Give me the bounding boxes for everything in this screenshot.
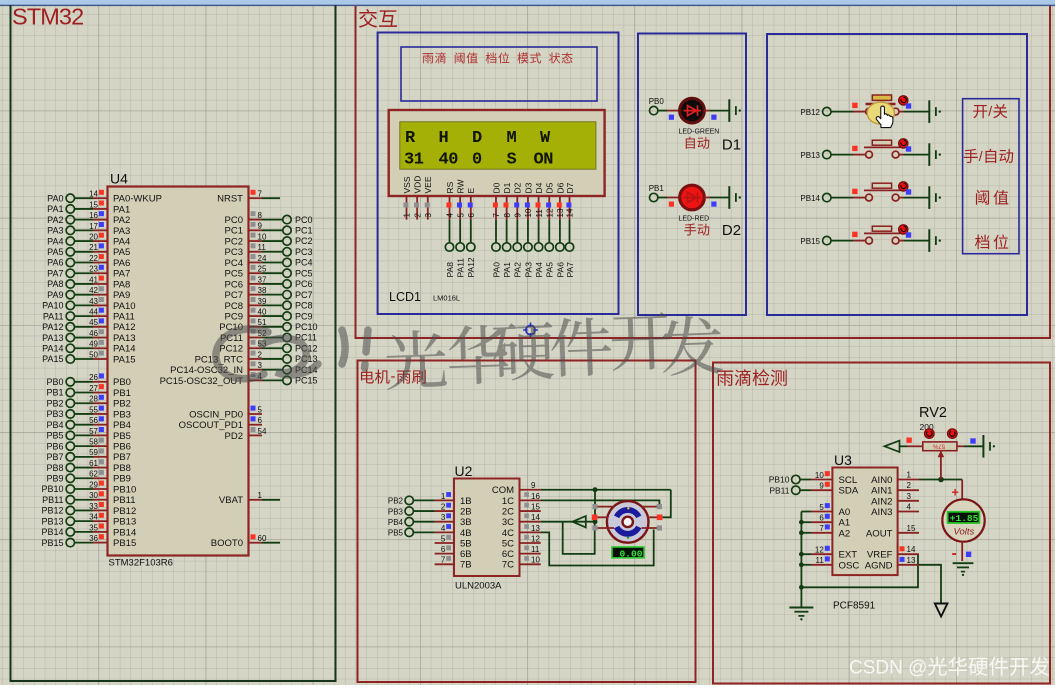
svg-text:1C: 1C: [502, 496, 514, 507]
push button PB12: [853, 95, 911, 124]
svg-text:PC5: PC5: [225, 269, 243, 280]
svg-text:14: 14: [531, 513, 540, 522]
wire junction down to node B: [594, 490, 596, 522]
svg-text:6B: 6B: [460, 549, 472, 560]
svg-text:5: 5: [258, 405, 263, 414]
U4 pin 36 PB15 terminal: [41, 534, 136, 549]
svg-text:37: 37: [258, 275, 267, 284]
svg-text:PB15: PB15: [41, 538, 63, 548]
svg-text:2B: 2B: [460, 506, 472, 517]
svg-text:14: 14: [907, 545, 916, 554]
U4 pin 34 PB13 terminal: [41, 513, 136, 528]
terminal PB3: [388, 507, 435, 516]
svg-text:PC9: PC9: [225, 311, 243, 322]
svg-text:45: 45: [89, 318, 98, 327]
svg-text:OSCIN_PD0: OSCIN_PD0: [189, 409, 243, 420]
U4 pin 24 PC4 terminal: [225, 254, 313, 269]
wire PB14 to button: [831, 197, 853, 199]
U4 pin 25 PC5 terminal: [225, 265, 313, 280]
svg-text:PC1: PC1: [225, 226, 243, 237]
svg-text:PA5: PA5: [545, 262, 555, 278]
svg-text:-: -: [952, 545, 957, 562]
wire PB12 to button: [831, 111, 853, 113]
label 手/自动: [964, 148, 1013, 164]
svg-text:PA0-WKUP: PA0-WKUP: [113, 194, 162, 205]
svg-text:PB8: PB8: [46, 463, 63, 473]
svg-text:PA11: PA11: [113, 312, 135, 323]
svg-text:PA9: PA9: [113, 290, 130, 301]
watermark CSDN bottom right: [849, 657, 1049, 679]
svg-text:5: 5: [819, 503, 824, 512]
LCD1 reference label: [389, 290, 460, 304]
svg-text:VREF: VREF: [867, 550, 893, 561]
U2 pin 15 2C: [502, 502, 541, 517]
wire LCD1 pin 11 to terminal PA4: [534, 220, 544, 278]
ground for voltmeter: [953, 563, 974, 576]
svg-text:A1: A1: [839, 518, 851, 529]
svg-text:PB11: PB11: [42, 495, 63, 505]
wire RV2 wiper to AIN0: [938, 450, 945, 479]
terminal PB15: [800, 236, 831, 245]
svg-text:6: 6: [819, 514, 824, 523]
terminal PB1: [649, 184, 665, 202]
svg-text:PC6: PC6: [225, 279, 243, 290]
U4 pin 52 PC11 terminal: [220, 329, 317, 344]
wire LCD1 pin 9 to terminal PA2: [513, 220, 523, 278]
svg-text:50: 50: [89, 350, 98, 359]
LED D2 LED-RED: [667, 185, 704, 210]
U4 pin 1 VBAT: [219, 491, 280, 506]
label 档位: [975, 234, 1008, 249]
svg-text:OSCOUT_PD1: OSCOUT_PD1: [179, 420, 243, 431]
svg-text:PA3: PA3: [523, 262, 533, 278]
svg-text:D6: D6: [555, 182, 565, 193]
svg-text:AIN0: AIN0: [871, 475, 892, 486]
svg-text:SDA: SDA: [839, 486, 859, 497]
LCD1 pin 14 D7: [565, 182, 575, 219]
svg-text:2C: 2C: [502, 506, 514, 517]
U3 pin 3 AIN2: [871, 492, 919, 508]
svg-text:8: 8: [258, 211, 263, 220]
region box 交互 (interaction): [356, 6, 1051, 338]
svg-text:PA10: PA10: [113, 301, 136, 312]
svg-text:PA8: PA8: [47, 279, 63, 289]
chip U3 PCF8591 body: [832, 452, 897, 612]
svg-text:PC9: PC9: [295, 311, 313, 321]
svg-text:3B: 3B: [460, 517, 472, 528]
U4 pin 58 PB6 terminal: [46, 438, 130, 453]
svg-text:7: 7: [819, 524, 824, 533]
U4 pin 20 PA4 terminal: [47, 232, 130, 247]
region box STM32: [11, 5, 336, 681]
svg-text:60: 60: [258, 534, 267, 543]
svg-text:PA4: PA4: [47, 236, 63, 246]
U2 pin 14 3C: [502, 513, 541, 528]
svg-text:9: 9: [258, 222, 263, 231]
U4 pin 45 PA12 terminal: [42, 318, 135, 333]
svg-text:PA11: PA11: [43, 311, 64, 321]
svg-text:40: 40: [258, 307, 267, 316]
svg-text:41: 41: [89, 275, 98, 284]
svg-text:24: 24: [258, 254, 267, 263]
svg-text:23: 23: [89, 265, 98, 274]
svg-text:PA7: PA7: [565, 262, 575, 278]
wire PB15 to button: [831, 240, 853, 242]
U4 pin 16 PA2 terminal: [47, 211, 130, 226]
svg-text:20: 20: [89, 232, 98, 241]
svg-text:PA0: PA0: [47, 193, 63, 203]
LCD1 pin 2 VDD: [413, 176, 423, 220]
svg-text:11: 11: [258, 243, 267, 252]
U2 pin 16 1C: [502, 492, 541, 507]
label 自动: [686, 137, 710, 149]
svg-text:PA2: PA2: [47, 215, 63, 225]
svg-text:PB13: PB13: [41, 516, 63, 526]
origin marker: [523, 323, 538, 338]
svg-text:RS: RS: [445, 181, 455, 193]
svg-text:VDD: VDD: [413, 176, 423, 194]
U4 pin 29 PB10 terminal: [41, 480, 136, 495]
svg-text:16: 16: [89, 211, 98, 220]
svg-text:PB13: PB13: [113, 517, 136, 528]
svg-text:3: 3: [258, 361, 263, 370]
terminal PB5: [388, 528, 435, 537]
svg-text:PB10: PB10: [769, 475, 790, 485]
U4 pin 50 PA15 terminal: [42, 350, 135, 365]
svg-text:46: 46: [89, 329, 98, 338]
wire LCD1 pin 5 to terminal PA11: [456, 220, 466, 278]
ground for button PB15: [929, 229, 941, 252]
U4 pin 15 PA1 terminal: [47, 200, 130, 215]
U4 pin 59 PB7 terminal: [46, 448, 130, 463]
wire U2 3C to motor left-middle pin: [541, 521, 595, 523]
label 手动: [684, 223, 709, 235]
svg-text:PB15: PB15: [800, 237, 820, 246]
svg-text:VBAT: VBAT: [219, 495, 243, 506]
U4 pin 46 PA13 terminal: [42, 329, 135, 344]
svg-text:15: 15: [89, 200, 98, 209]
U2 pin 11 6C: [502, 545, 541, 560]
title 电机-雨刷: [361, 368, 426, 385]
wire LCD1 pin 14 to terminal PA7: [565, 220, 575, 278]
svg-text:PA12: PA12: [113, 322, 136, 333]
svg-text:10: 10: [531, 556, 540, 565]
wire voltmeter minus to ground: [962, 542, 971, 561]
svg-text:D5: D5: [545, 182, 555, 193]
terminal PB0: [649, 97, 665, 115]
svg-text:PA7: PA7: [113, 269, 130, 280]
svg-text:PC6: PC6: [295, 279, 313, 289]
svg-text:PB1: PB1: [46, 388, 63, 398]
svg-text:58: 58: [89, 438, 98, 447]
U4 pin 54 PD2: [225, 427, 267, 442]
U4 pin 26 PB0 terminal: [46, 373, 130, 388]
LCD1 pin 11 D4: [534, 182, 544, 219]
svg-text:PB10: PB10: [41, 484, 63, 494]
LED D1 LED-GREEN: [667, 98, 704, 123]
svg-text:VEE: VEE: [423, 176, 433, 193]
svg-text:4: 4: [446, 213, 455, 218]
svg-text:D2: D2: [722, 222, 741, 239]
motor stepper: [607, 501, 649, 543]
chip U4 STM32F103R6 body: [108, 171, 249, 569]
svg-text:6: 6: [258, 416, 263, 425]
svg-text:PB5: PB5: [46, 431, 63, 441]
U4 pin 57 PB5 terminal: [46, 427, 130, 442]
region box 雨滴检测 (rain detection): [713, 363, 1050, 684]
svg-text:1: 1: [403, 213, 412, 218]
wire PB13 to button: [831, 154, 853, 156]
svg-text:PA0: PA0: [491, 262, 501, 278]
U2 pin 3 3B: [435, 513, 472, 528]
svg-text:57: 57: [89, 427, 98, 436]
svg-text:5C: 5C: [502, 538, 514, 549]
svg-text:PC4: PC4: [225, 258, 243, 269]
svg-text:STM32: STM32: [12, 4, 83, 30]
svg-text:RV2: RV2: [919, 405, 947, 421]
svg-text:PC2: PC2: [295, 236, 313, 246]
svg-text:PC12: PC12: [219, 344, 243, 355]
svg-text:PA13: PA13: [42, 333, 63, 343]
U3 pin 6 A1: [811, 514, 850, 529]
U4 pin 8 PC0 terminal: [225, 211, 313, 226]
svg-text:7: 7: [258, 190, 263, 199]
svg-text:PB14: PB14: [113, 527, 136, 538]
svg-text:2: 2: [413, 213, 422, 218]
arrow ground marker: [935, 604, 948, 617]
LCD LCD1 LM016L body: [389, 110, 605, 196]
watermark script center: [216, 312, 723, 390]
LCD1 pin 4 RS: [445, 181, 455, 219]
svg-text:PA8: PA8: [445, 262, 455, 278]
svg-text:PB5: PB5: [113, 431, 131, 442]
svg-text:BOOT0: BOOT0: [211, 538, 243, 549]
svg-text:PB4: PB4: [388, 518, 404, 527]
svg-text:43: 43: [89, 297, 98, 306]
svg-text:27: 27: [89, 384, 98, 393]
svg-text:3: 3: [424, 213, 433, 218]
title 交互: [359, 9, 397, 28]
U2 pin 1 1B: [435, 492, 472, 507]
svg-text:PA3: PA3: [113, 226, 130, 237]
svg-text:PB12: PB12: [113, 506, 136, 517]
label box button functions: [963, 99, 1019, 254]
wire RV2 right to ground: [957, 438, 983, 446]
svg-text:PA14: PA14: [42, 343, 63, 353]
U4 pin 43 PA10 terminal: [42, 297, 135, 312]
wire AIN0 to wiper node: [919, 479, 941, 481]
svg-text:11: 11: [531, 545, 540, 554]
svg-text:PA12: PA12: [466, 257, 476, 277]
svg-text:PC4: PC4: [295, 258, 313, 268]
U4 pin 61 PB8 terminal: [46, 459, 130, 474]
wire button PB15 to ground: [899, 240, 904, 242]
U3 pin 12 EXT: [811, 546, 857, 561]
svg-text:PB9: PB9: [113, 474, 131, 485]
voltmeter: [942, 486, 984, 563]
wire RV2 left to arrow terminal: [885, 438, 923, 453]
svg-text:54: 54: [258, 427, 267, 436]
push button PB13: [853, 139, 911, 158]
wire LCD1 pin 12 to terminal PA5: [545, 220, 555, 278]
svg-text:6: 6: [467, 213, 476, 218]
U2 pin 13 4C: [502, 524, 541, 539]
svg-text:A2: A2: [839, 528, 851, 539]
svg-text:PB12: PB12: [41, 506, 63, 516]
U3 pin 9 SDA: [811, 482, 859, 497]
terminal PB10: [769, 475, 811, 485]
svg-text:NRST: NRST: [217, 193, 243, 204]
svg-text:PB3: PB3: [113, 409, 131, 420]
svg-text:PA3: PA3: [47, 226, 63, 236]
U4 pin 38 PC7 terminal: [225, 286, 313, 301]
U4 pin 21 PA5 terminal: [47, 243, 130, 258]
svg-text:4: 4: [441, 524, 446, 533]
svg-text:PC8: PC8: [225, 301, 243, 312]
svg-text:PA6: PA6: [47, 258, 63, 268]
svg-text:D7: D7: [565, 182, 575, 193]
svg-text:14: 14: [89, 190, 98, 199]
terminal PB13: [800, 150, 831, 159]
wire LCD1 pin 4 to terminal PA8: [445, 220, 455, 278]
svg-text:PA4: PA4: [534, 262, 544, 278]
svg-text:AGND: AGND: [865, 560, 893, 571]
potentiometer RV2 adjust buttons: [925, 429, 958, 439]
svg-text:PA15: PA15: [42, 354, 63, 364]
title 雨滴检测: [717, 369, 787, 386]
svg-text:/: /: [988, 103, 992, 119]
U4 pin 4 PC15 terminal: [160, 372, 318, 387]
svg-text:6: 6: [441, 545, 446, 554]
wire button PB13 to ground: [899, 154, 904, 156]
svg-text:21: 21: [89, 243, 98, 252]
svg-text:LED-GREEN: LED-GREEN: [679, 129, 720, 136]
U4 pin 30 PB11 terminal: [42, 491, 135, 506]
ground for button PB12: [929, 100, 941, 123]
svg-text:D2: D2: [513, 182, 523, 193]
svg-text:8: 8: [503, 213, 512, 218]
svg-text:61: 61: [89, 459, 98, 468]
svg-text:34: 34: [89, 513, 98, 522]
U4 pin 2 PC13 terminal: [195, 350, 318, 365]
svg-text:10: 10: [258, 232, 267, 241]
svg-text:PA11: PA11: [456, 258, 466, 278]
svg-text:/: /: [979, 148, 983, 164]
svg-text:PB10: PB10: [113, 484, 136, 495]
region box 电机-雨刷 (motor-wiper): [358, 361, 696, 683]
svg-text:38: 38: [258, 286, 267, 295]
svg-text:D0: D0: [491, 182, 501, 193]
svg-text:PA5: PA5: [47, 247, 63, 257]
svg-text:PC10: PC10: [295, 322, 318, 332]
svg-text:PB6: PB6: [113, 442, 131, 453]
svg-text:AOUT: AOUT: [866, 528, 893, 539]
svg-text:PC0: PC0: [295, 215, 313, 225]
svg-text:PA14: PA14: [113, 344, 136, 355]
LCD1 pin 3 VEE: [423, 176, 433, 219]
node AIN0/wiper junction: [938, 477, 944, 483]
svg-text:PA5: PA5: [113, 247, 130, 258]
U4 pin 35 PB14 terminal: [41, 523, 136, 538]
cursor hand icon: [876, 106, 893, 128]
LCD1 pin 9 D2: [513, 182, 523, 219]
motor pins: [592, 504, 663, 531]
svg-text:PA2: PA2: [113, 215, 130, 226]
svg-text:0.00: 0.00: [620, 548, 643, 559]
wire PB0 to D1: [658, 110, 667, 112]
svg-text:Volts: Volts: [954, 527, 975, 538]
svg-text:2: 2: [441, 502, 446, 511]
LCD1 pin 8 D1: [502, 182, 512, 219]
wire U2 COM to motor net: [541, 489, 671, 491]
terminal PB2: [388, 496, 435, 505]
svg-text:4B: 4B: [460, 528, 472, 539]
node bus junctions: [799, 520, 804, 590]
label 阈值: [976, 190, 1008, 205]
svg-text:PD2: PD2: [225, 431, 243, 442]
sub box LED area: [638, 34, 746, 316]
LCD1 pin 13 D6: [555, 182, 565, 219]
svg-text:49: 49: [89, 340, 98, 349]
motor speed display 0.00: [612, 547, 644, 559]
svg-text:PB13: PB13: [800, 151, 820, 160]
U4 pin 53 PC12 terminal: [219, 340, 317, 355]
svg-text:D1: D1: [722, 137, 741, 154]
svg-text:U4: U4: [110, 171, 128, 187]
U4 pin 51 PC10 terminal: [219, 318, 317, 333]
U2 pin 7 7B: [435, 556, 472, 571]
node COM junction: [593, 487, 598, 492]
svg-text:PC5: PC5: [295, 268, 313, 278]
U4 pin 33 PB12 terminal: [41, 502, 136, 517]
svg-text:-: -: [391, 368, 396, 385]
svg-text:28: 28: [89, 395, 98, 404]
sub box LCD area: [378, 33, 619, 315]
wire address/osc bus to ground: [800, 512, 802, 607]
U4 pin 11 PC3 terminal: [225, 243, 313, 258]
svg-text:1: 1: [441, 492, 446, 501]
ground for D1: [729, 99, 741, 122]
svg-text:PB11: PB11: [769, 485, 789, 495]
svg-text:56: 56: [89, 416, 98, 425]
U3 pin 2 AIN1: [871, 481, 919, 497]
U4 pin 55 PB3 terminal: [46, 405, 130, 420]
svg-text:PC7: PC7: [295, 290, 313, 300]
svg-text:PB1: PB1: [649, 184, 665, 193]
svg-text:PB0: PB0: [46, 377, 63, 387]
svg-text:26: 26: [89, 373, 98, 382]
wire button PB12 to ground: [899, 111, 904, 113]
U4 pin 10 PC2 terminal: [225, 232, 313, 247]
svg-text:COM: COM: [492, 485, 514, 496]
svg-text:D4: D4: [534, 182, 544, 193]
U3 pin 13 AGND: [865, 556, 919, 572]
svg-text:A0: A0: [839, 507, 851, 518]
wire LCD1 pin 10 to terminal PA3: [523, 220, 533, 278]
svg-text:PA4: PA4: [113, 236, 130, 247]
svg-text:PB4: PB4: [46, 420, 63, 430]
svg-text:1: 1: [258, 491, 263, 500]
svg-text:PB4: PB4: [113, 420, 131, 431]
LCD1 pin 7 D0: [491, 182, 501, 219]
wire U2 1C to motor right-top pin: [541, 500, 660, 504]
svg-text:30: 30: [89, 491, 98, 500]
svg-text:PB6: PB6: [46, 441, 63, 451]
ground for button PB14: [929, 186, 941, 209]
svg-text:PC3: PC3: [295, 247, 313, 257]
svg-text:+1.85: +1.85: [950, 513, 979, 524]
U4 pin 6 OSCOUT_PD1: [179, 416, 263, 431]
